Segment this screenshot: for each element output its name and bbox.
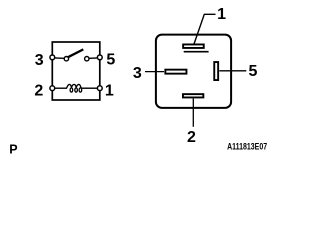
svg-text:3: 3 xyxy=(133,65,142,82)
svg-text:5: 5 xyxy=(106,52,115,69)
wire contact to terminal5 xyxy=(90,57,99,59)
switch blade S xyxy=(68,49,83,57)
terminal 2 xyxy=(50,86,55,91)
svg-text:A111813E07: A111813E07 xyxy=(227,142,267,152)
wire terminal3 to contact xyxy=(54,57,64,59)
leader line pin 3 xyxy=(145,71,164,73)
terminal slot 1 (top) xyxy=(183,44,204,48)
terminal slot 5 (right) xyxy=(214,62,218,80)
leader line pin 1 xyxy=(194,14,216,44)
wire coil to terminal1 xyxy=(83,87,99,89)
ledge line below slot 1 xyxy=(184,51,209,53)
terminal 5 xyxy=(97,55,102,60)
coil L1 arches xyxy=(67,84,83,88)
svg-text:2: 2 xyxy=(187,129,196,146)
svg-text:3: 3 xyxy=(35,52,44,69)
relay connector body xyxy=(156,35,231,108)
svg-text:1: 1 xyxy=(105,82,114,99)
wire terminal2 to coil xyxy=(54,87,67,89)
svg-text:1: 1 xyxy=(217,6,226,23)
coil loop 1 xyxy=(70,88,73,92)
coil loop 3 xyxy=(79,88,82,92)
coil loop 2 xyxy=(75,88,78,92)
terminal 1 xyxy=(97,86,102,91)
svg-text:5: 5 xyxy=(249,63,258,80)
svg-text:2: 2 xyxy=(34,83,43,100)
leader line pin 5 xyxy=(219,70,246,72)
relay K1 schematic box xyxy=(52,42,100,100)
terminal slot 3 (left) xyxy=(165,70,186,74)
leader line pin 2 xyxy=(192,99,194,127)
terminal slot 2 (bottom) xyxy=(183,94,203,97)
switch contact b xyxy=(85,57,89,61)
terminal 3 xyxy=(50,55,55,60)
svg-text:P: P xyxy=(9,143,17,157)
switch contact a xyxy=(64,57,68,61)
